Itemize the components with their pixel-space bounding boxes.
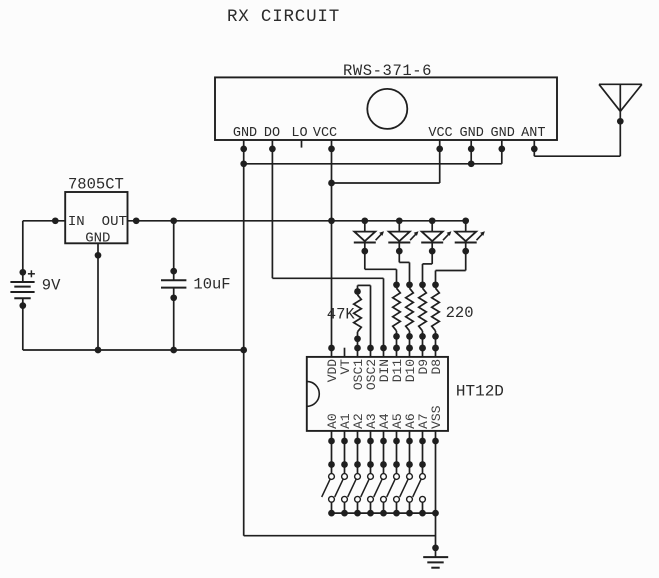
junction IN terminal (52, 217, 59, 224)
junction VCC rail (328, 217, 335, 224)
capacitor C1 top lead (173, 221, 175, 280)
resistor R2 220 on D11 (393, 281, 400, 288)
U2 top pin D9 (422, 348, 424, 357)
switch S6 on A5 (387, 441, 400, 516)
svg-text:IN: IN (68, 214, 85, 230)
U2 bottom pin A5 (396, 431, 398, 441)
svg-text:RX CIRCUIT: RX CIRCUIT (227, 7, 340, 27)
decoder U2 HT12D body (307, 357, 448, 431)
wire 47K top loop to OSC2 (357, 285, 359, 291)
svg-text:9V: 9V (42, 277, 61, 295)
svg-text:LO: LO (291, 126, 307, 141)
switch S1 on A0 (322, 441, 335, 516)
resistor R4 220 on D9 (419, 281, 426, 288)
U2 notch (307, 381, 319, 406)
LED D3 (421, 221, 451, 251)
capacitor C1 bottom lead (173, 288, 175, 350)
U2 bottom pin A1 (344, 431, 346, 441)
junction U1 VCC pin (328, 146, 335, 153)
svg-text:VCC: VCC (428, 126, 452, 141)
U2 bottom pin VSS (435, 431, 437, 441)
junction VCC right pin (436, 146, 443, 153)
junction U3 GND terminal (95, 252, 102, 259)
svg-text:RWS-371-6: RWS-371-6 (343, 62, 432, 80)
junction D1 anode on rail (361, 217, 368, 224)
U2 top pin D10 (409, 348, 411, 357)
resistor R1 47K on OSC1 (354, 288, 361, 295)
wire IN to battery positive (23, 220, 65, 222)
junction C1 bottom terminal (170, 294, 177, 301)
junction D2 anode on rail (396, 217, 403, 224)
wire D2 cathode to resistor (398, 251, 400, 262)
wire switch common rail (332, 512, 436, 514)
U2 bottom pin A4 (383, 431, 385, 441)
wire D3 cathode to resistor (431, 251, 433, 264)
junction VSS on switch rail (432, 510, 439, 517)
wire DO to DIN horizontal (272, 277, 383, 279)
junction GND row left (240, 160, 247, 167)
wire left ground rail (23, 349, 244, 351)
junction D4 anode on rail (462, 217, 469, 224)
junction ground rail to main GND wire (240, 347, 247, 354)
wire U1 GND right1 stub (470, 140, 472, 164)
svg-text:GND: GND (460, 126, 484, 141)
U2 top pin VDD (331, 348, 333, 357)
U2 top pin DIN (383, 348, 385, 357)
battery BT1 plus sign (28, 273, 35, 275)
wire VCC row to right VCC pin (332, 182, 440, 184)
junction D4 cathode (462, 248, 469, 255)
resistor R5 220 on D8 (432, 281, 439, 288)
wire bottom ground rail (244, 535, 436, 537)
ground symbol (423, 557, 448, 568)
junction capacitor bottom on rail (170, 347, 177, 354)
U2 top pin D8 (435, 348, 437, 357)
junction battery negative terminal (19, 302, 26, 309)
svg-text:D8: D8 (429, 359, 444, 375)
U2 bottom pin A2 (357, 431, 359, 441)
svg-text:GND: GND (491, 126, 515, 141)
junction D3 cathode (429, 248, 436, 255)
svg-text:7805CT: 7805CT (68, 175, 124, 193)
junction D2 cathode (396, 248, 403, 255)
svg-text:47K: 47K (327, 305, 356, 323)
LED D2 (388, 221, 418, 251)
svg-text:ANT: ANT (521, 126, 545, 141)
wire D4 cathode to resistor (465, 251, 467, 270)
junction D3 anode on rail (429, 217, 436, 224)
wire VSS pin down to ground (435, 441, 437, 557)
switch S8 on A7 (413, 441, 426, 516)
antenna E1 (599, 84, 642, 111)
junction U1 GND pin (240, 146, 247, 153)
LED D4 (455, 221, 485, 251)
junction OUT terminal (133, 217, 140, 224)
U2 bottom pin A0 (331, 431, 333, 441)
junction U3 GND on rail (95, 347, 102, 354)
wire battery negative down (22, 298, 24, 350)
resistor R3 220 on D10 (406, 281, 413, 288)
junction GND right1 pin (468, 146, 475, 153)
switch S2 on A1 (335, 441, 348, 516)
svg-text:OUT: OUT (102, 214, 127, 230)
U2 top pin OSC1 (357, 348, 359, 357)
wire U1 GND pin down to bottom ground rail (243, 140, 245, 536)
LED D1 (354, 221, 384, 251)
U2 top pin VT (344, 348, 346, 357)
wire GND row under U1 (244, 163, 502, 165)
switch S3 on A2 (348, 441, 361, 516)
wire U1 GND right2 stub (501, 140, 503, 164)
junction battery positive terminal (19, 269, 26, 276)
wire DIN vertical (383, 278, 385, 348)
regulator U3 7805CT body (65, 192, 127, 243)
U2 bottom pin A3 (370, 431, 372, 441)
junction C1 top terminal (170, 268, 177, 275)
wire D1 cathode to resistor (364, 251, 366, 269)
junction above ground symbol (432, 545, 439, 552)
svg-text:GND: GND (233, 126, 257, 141)
U2 bottom pin A6 (409, 431, 411, 441)
svg-text:10uF: 10uF (193, 276, 230, 294)
can circle on U1 (367, 89, 407, 129)
switch S4 on A3 (361, 441, 374, 516)
junction GND right2 pin (498, 146, 505, 153)
battery BT1 plates (10, 281, 34, 283)
receiver module U1 RWS-371-6 body (215, 77, 557, 140)
antenna feed junction (617, 118, 624, 125)
U2 top pin D11 (396, 348, 398, 357)
U2 bottom pin A7 (422, 431, 424, 441)
wire U1 DO pin down (271, 140, 273, 278)
svg-text:220: 220 (446, 304, 474, 322)
junction GND right1 on row (468, 160, 475, 167)
wire U1 VCC right stub (439, 140, 441, 183)
junction D1 cathode (361, 248, 368, 255)
svg-text:HT12D: HT12D (456, 382, 504, 400)
svg-text:VSS: VSS (429, 405, 444, 429)
junction capacitor top (170, 217, 177, 224)
capacitor C1 plates (161, 279, 186, 281)
svg-text:DO: DO (264, 126, 280, 141)
junction U1 DO pin (269, 146, 276, 153)
switch S7 on A6 (400, 441, 413, 516)
wire ANT to antenna (533, 140, 535, 156)
wire U3 GND pin down (97, 243, 99, 350)
U2 top pin OSC2 (370, 348, 372, 357)
junction ANT pin (531, 146, 538, 153)
wire U1 VCC pin down to HT12D VDD (331, 140, 333, 348)
junction VCC row left (328, 180, 335, 187)
wire +5V rail from regulator OUT to LEDs (128, 220, 466, 222)
switch S5 on A4 (374, 441, 387, 516)
U1 LO pin stub (301, 140, 303, 148)
svg-text:VCC: VCC (313, 126, 337, 141)
